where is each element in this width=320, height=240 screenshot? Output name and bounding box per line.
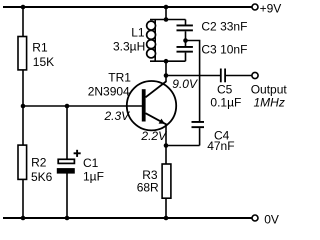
capacitor C3 bbox=[177, 41, 248, 62]
wire collector bbox=[165, 61, 167, 82]
svg-text:2.3V: 2.3V bbox=[104, 109, 131, 123]
svg-text:L1: L1 bbox=[131, 26, 145, 40]
svg-text:1MHz: 1MHz bbox=[254, 96, 285, 110]
svg-text:3.3µH: 3.3µH bbox=[113, 39, 145, 53]
node tank top junction bbox=[164, 17, 169, 22]
svg-text:Output: Output bbox=[251, 83, 288, 97]
node emitter-C4 junction bbox=[164, 143, 169, 148]
svg-text:R2: R2 bbox=[31, 156, 47, 170]
svg-text:0.1µF: 0.1µF bbox=[210, 95, 241, 109]
node R3-rail junction bbox=[164, 216, 169, 221]
svg-text:+9V: +9V bbox=[260, 1, 282, 15]
node rail-tank junction bbox=[164, 5, 169, 10]
svg-text:TR1: TR1 bbox=[108, 70, 131, 84]
svg-text:C1: C1 bbox=[83, 156, 99, 170]
svg-text:R1: R1 bbox=[32, 41, 48, 55]
svg-text:9.0V: 9.0V bbox=[172, 77, 198, 91]
resistor R3 bbox=[137, 164, 171, 198]
wire tank top bbox=[150, 19, 186, 21]
capacitor C1 bbox=[57, 150, 104, 184]
terminal +9V bbox=[252, 1, 281, 15]
capacitor C2 bbox=[177, 20, 248, 41]
node C2-C3 junction bbox=[183, 38, 188, 43]
node R2-rail junction bbox=[21, 216, 26, 221]
node base-C1 junction bbox=[65, 104, 70, 109]
capacitor C4 bbox=[192, 121, 235, 153]
wire left bias column bbox=[22, 7, 24, 218]
inductor L1 bbox=[113, 20, 156, 62]
wire feedback tap bbox=[186, 41, 200, 122]
svg-text:68R: 68R bbox=[137, 180, 159, 194]
svg-text:15K: 15K bbox=[33, 55, 54, 69]
wire +9V top rail bbox=[3, 6, 252, 8]
svg-text:1µF: 1µF bbox=[83, 170, 104, 184]
wire C1 bottom stem bbox=[66, 173, 68, 218]
svg-text:2N3904: 2N3904 bbox=[88, 84, 130, 98]
wire emitter bbox=[165, 124, 167, 165]
svg-text:C2 33nF: C2 33nF bbox=[201, 20, 247, 34]
node collector-output junction bbox=[164, 73, 169, 78]
node tank bottom-collector junction bbox=[164, 59, 169, 64]
svg-text:C3 10nF: C3 10nF bbox=[201, 43, 247, 57]
node R1-R2-base junction bbox=[21, 104, 26, 109]
svg-text:0V: 0V bbox=[264, 212, 279, 226]
wire output right bbox=[226, 75, 252, 77]
wire emitter to C4 bbox=[166, 145, 200, 147]
terminal Output bbox=[251, 72, 288, 109]
resistor R1 bbox=[18, 37, 54, 70]
node C1-rail junction bbox=[65, 216, 70, 221]
svg-text:2.2V: 2.2V bbox=[140, 129, 167, 143]
wire output bbox=[166, 75, 220, 77]
transistor TR1 2N3904 bbox=[88, 70, 198, 143]
wire R3 to rail bbox=[165, 198, 167, 218]
capacitor C5 bbox=[210, 69, 241, 110]
wire rail to tank top bbox=[165, 7, 167, 20]
wire C1 top stem bbox=[66, 106, 68, 159]
terminal 0V bbox=[252, 212, 279, 226]
wire tank bottom bbox=[150, 60, 186, 62]
node rail-R1 junction bbox=[21, 5, 26, 10]
resistor R2 bbox=[18, 145, 53, 184]
svg-text:5K6: 5K6 bbox=[31, 170, 53, 184]
svg-text:47nF: 47nF bbox=[207, 139, 234, 153]
wire 0V bottom rail bbox=[3, 217, 252, 219]
wire base bbox=[23, 105, 143, 107]
